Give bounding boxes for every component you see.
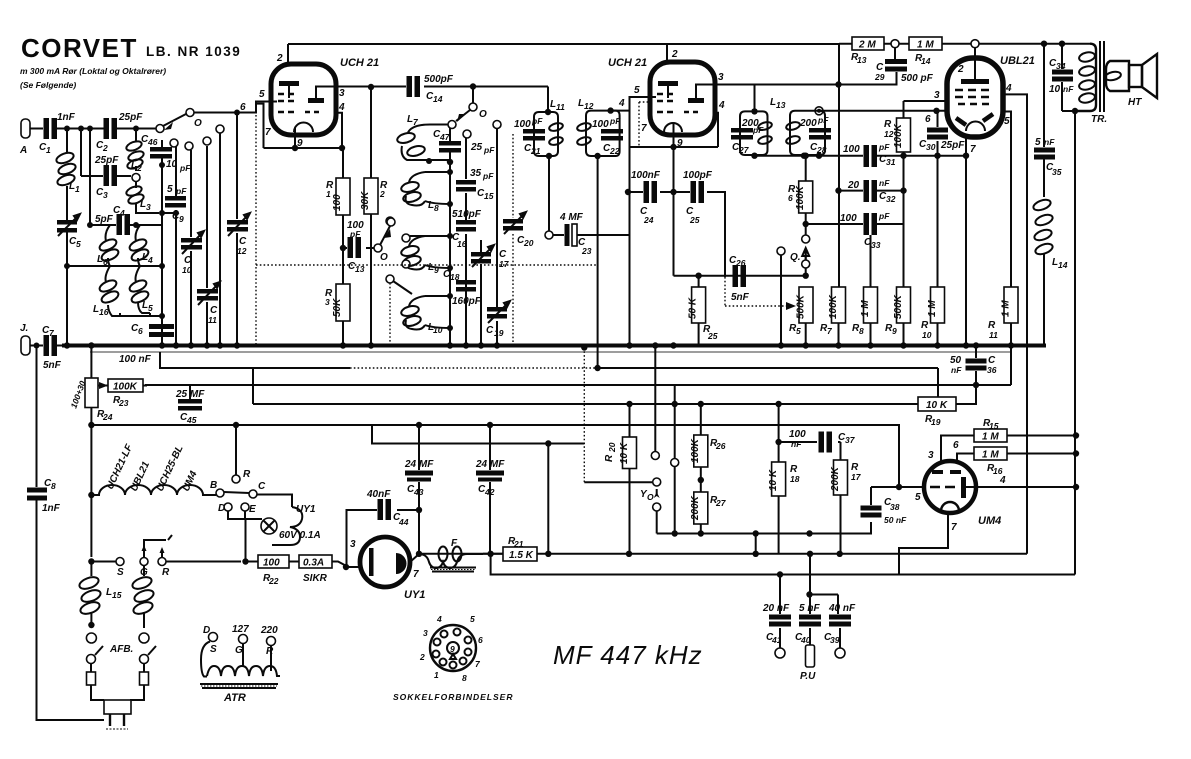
- cathode U1: [294, 123, 313, 133]
- capacitor C2: [104, 118, 110, 139]
- capacitor C38: [870, 487, 872, 534]
- svg-text:10: 10: [182, 265, 192, 275]
- wire rail y404: [253, 367, 918, 404]
- svg-text:R: R: [162, 567, 170, 578]
- svg-text:SIKR: SIKR: [303, 573, 328, 584]
- svg-text:4: 4: [999, 475, 1006, 486]
- svg-text:12: 12: [884, 129, 894, 139]
- svg-text:21: 21: [513, 539, 524, 549]
- svg-text:UM4: UM4: [978, 515, 1001, 527]
- svg-text:8: 8: [859, 326, 864, 336]
- osc switch O: [472, 87, 474, 104]
- svg-text:50 K: 50 K: [688, 297, 699, 319]
- svg-text:nF: nF: [879, 178, 890, 188]
- svg-text:7: 7: [413, 569, 419, 580]
- resistor R18: [778, 404, 780, 554]
- trimmer C20: [512, 134, 514, 346]
- wire down from C14 line: [547, 87, 549, 113]
- svg-text:8: 8: [51, 481, 56, 491]
- terminal 127 G: [239, 635, 248, 644]
- svg-text:S: S: [210, 644, 217, 655]
- svg-text:29: 29: [874, 72, 885, 82]
- pin 4 wire: [715, 113, 718, 147]
- pin row wire: [630, 146, 719, 148]
- inductor L6: [106, 225, 111, 266]
- terminal A: [21, 119, 30, 138]
- svg-text:O: O: [647, 492, 654, 502]
- svg-text:25: 25: [689, 215, 700, 225]
- svg-text:2 M: 2 M: [858, 40, 876, 51]
- svg-text:42: 42: [484, 487, 495, 497]
- pin 4 wire: [966, 486, 1076, 488]
- svg-text:R: R: [243, 469, 251, 480]
- svg-text:4: 4: [718, 100, 725, 111]
- svg-text:10 K: 10 K: [619, 442, 630, 464]
- svg-text:10: 10: [922, 330, 932, 340]
- svg-text:18: 18: [450, 272, 460, 282]
- tube UY1: [360, 537, 410, 587]
- grid dashes U3: [955, 90, 989, 104]
- svg-text:35: 35: [470, 168, 482, 179]
- chassis bus: [62, 344, 1046, 348]
- capacitor C47: [449, 128, 451, 162]
- svg-text:25pF: 25pF: [118, 112, 143, 123]
- svg-text:AFB.: AFB.: [109, 644, 133, 655]
- inductor L13a coil: [757, 121, 772, 131]
- capacitor C37: [779, 441, 841, 443]
- svg-text:2: 2: [671, 49, 678, 60]
- pin 7 wire: [256, 104, 264, 148]
- wire heater row: [91, 561, 116, 563]
- svg-text:4: 4: [1005, 83, 1012, 94]
- wire TR bottom: [1062, 110, 1075, 112]
- tank L13b C28: [815, 107, 823, 115]
- capacitor C43: [418, 425, 420, 554]
- switch YQ: [583, 348, 585, 483]
- svg-text:100K: 100K: [795, 185, 806, 210]
- svg-text:J.: J.: [20, 323, 28, 334]
- svg-text:3: 3: [423, 628, 428, 638]
- svg-text:40: 40: [800, 635, 811, 645]
- inductor L16: [106, 266, 121, 316]
- trimmer C19: [496, 129, 498, 346]
- trimmer C17: [480, 240, 482, 346]
- inductor L7: [402, 125, 430, 161]
- transformer TR primary: [1075, 44, 1096, 111]
- svg-text:3: 3: [146, 202, 151, 212]
- svg-text:nF: nF: [791, 439, 802, 449]
- resistor R2: [370, 87, 372, 346]
- wire top right rail: [979, 43, 1090, 45]
- svg-text:44: 44: [398, 517, 409, 527]
- capacitor C3: [81, 129, 103, 177]
- wire: [37, 500, 105, 720]
- svg-text:E: E: [249, 504, 256, 515]
- svg-text:500pF: 500pF: [424, 74, 454, 85]
- svg-text:pF: pF: [483, 145, 495, 155]
- wire vertical plain: [219, 129, 221, 346]
- capacitor C42: [489, 425, 491, 554]
- wire TR bottom down long: [1074, 111, 1076, 575]
- inductor L3: [136, 182, 159, 213]
- grid dashes U2: [657, 94, 673, 112]
- svg-text:3: 3: [103, 190, 108, 200]
- svg-text:27: 27: [715, 498, 727, 508]
- svg-text:6: 6: [788, 193, 793, 203]
- choke F: [410, 554, 483, 568]
- svg-text:200: 200: [799, 118, 817, 129]
- svg-text:ATR: ATR: [223, 692, 246, 704]
- grid dashes U1: [278, 94, 294, 112]
- dotted select line: [256, 264, 598, 266]
- svg-text:5: 5: [76, 239, 81, 249]
- svg-text:2: 2: [957, 64, 964, 75]
- svg-text:100K: 100K: [893, 123, 904, 148]
- svg-text:1 M: 1 M: [982, 450, 999, 461]
- pin 3 wire: [346, 566, 361, 568]
- svg-text:5 nF: 5 nF: [799, 603, 820, 614]
- svg-text:5: 5: [1035, 137, 1041, 148]
- wire rail y553.8: [537, 553, 1027, 555]
- svg-text:nF: nF: [951, 365, 962, 375]
- svg-text:43: 43: [413, 487, 424, 497]
- svg-text:13: 13: [776, 100, 786, 110]
- svg-text:10 K: 10 K: [926, 400, 948, 411]
- svg-text:5: 5: [1004, 116, 1010, 127]
- svg-text:UCH 21: UCH 21: [608, 57, 647, 69]
- svg-text:24: 24: [643, 215, 654, 225]
- switch contacts top: [170, 139, 178, 147]
- wire pin3 to R13 column: [715, 84, 839, 86]
- capacitor C7: [44, 335, 50, 356]
- svg-text:10 K: 10 K: [768, 469, 779, 491]
- wire rail y533.5: [657, 522, 871, 534]
- svg-text:5: 5: [796, 326, 801, 336]
- svg-text:100: 100: [840, 213, 857, 224]
- svg-text:(Se Følgende): (Se Følgende): [20, 80, 76, 90]
- capacitor C39: [838, 595, 840, 649]
- svg-text:25: 25: [707, 331, 718, 341]
- resistor R1: [342, 148, 344, 248]
- switch Q: [805, 224, 807, 235]
- svg-text:500 pF: 500 pF: [901, 73, 934, 84]
- svg-text:200K: 200K: [690, 495, 701, 521]
- resistor R17: [840, 442, 842, 554]
- svg-text:D: D: [218, 503, 225, 514]
- wire R12/C32 column down: [903, 156, 905, 287]
- svg-text:15: 15: [484, 191, 494, 201]
- terminal O/S: [209, 633, 218, 642]
- IFT1 tank L11 C21: [534, 112, 558, 156]
- pin 3 label: [946, 100, 948, 102]
- capacitor C41: [779, 575, 781, 649]
- capacitor C14: [343, 86, 548, 88]
- svg-text:m 300 mA Rør (Loktal og Oktal: m 300 mA Rør (Loktal og Oktalrører): [20, 66, 166, 76]
- svg-text:O: O: [479, 109, 487, 120]
- svg-text:pF: pF: [179, 163, 191, 173]
- wire: [117, 128, 159, 130]
- resistor R3: [342, 248, 344, 346]
- svg-text:10: 10: [1049, 84, 1061, 95]
- wire node line: [67, 265, 162, 267]
- ATR coil: [201, 642, 210, 677]
- svg-text:12: 12: [237, 246, 247, 256]
- capacitor C25: [674, 192, 726, 277]
- svg-text:pF: pF: [531, 116, 543, 126]
- pin 5 wire: [1003, 112, 1011, 386]
- wire down to tank: [754, 85, 756, 112]
- resistor R11: [1004, 287, 1018, 323]
- svg-text:0.3A: 0.3A: [303, 558, 324, 569]
- svg-text:D: D: [203, 625, 210, 636]
- node + central line: [420, 160, 450, 346]
- tube UM4 envelope: [924, 461, 976, 513]
- switch contact 25pF: [463, 130, 471, 138]
- inductor L2: [135, 129, 137, 172]
- svg-text:3: 3: [928, 450, 934, 461]
- svg-text:2: 2: [276, 53, 283, 64]
- svg-text:26: 26: [735, 258, 746, 268]
- svg-text:23: 23: [118, 398, 129, 408]
- capacitor C35 + inductor L14: [1043, 44, 1045, 147]
- pin 7 dotted box: [639, 102, 650, 147]
- svg-text:21: 21: [530, 146, 541, 156]
- svg-text:1: 1: [46, 145, 51, 155]
- variable capacitor C10: [190, 150, 192, 346]
- anode plate U2: [658, 81, 678, 86]
- pin row wire: [264, 147, 343, 149]
- inductor L8: [406, 172, 425, 206]
- svg-text:46: 46: [147, 137, 158, 147]
- svg-text:4: 4: [338, 102, 345, 113]
- svg-text:7: 7: [641, 123, 647, 134]
- svg-text:1 M: 1 M: [1001, 300, 1012, 317]
- svg-text:7: 7: [265, 127, 271, 138]
- svg-text:50 nF: 50 nF: [884, 515, 907, 525]
- svg-text:510pF: 510pF: [452, 209, 482, 220]
- svg-text:127: 127: [232, 624, 249, 635]
- svg-text:24: 24: [102, 412, 113, 422]
- wire tank bottoms row: [755, 155, 864, 157]
- cathode U3: [966, 122, 985, 132]
- inductor L9: [406, 236, 425, 270]
- svg-text:F: F: [451, 538, 458, 549]
- triode grid U2: [688, 98, 704, 103]
- tube U1 UCH21 envelope: [271, 64, 336, 135]
- resistor R21: [483, 553, 503, 555]
- svg-text:5pF: 5pF: [95, 214, 114, 225]
- svg-text:pF: pF: [349, 229, 361, 239]
- svg-text:5nF: 5nF: [43, 360, 62, 371]
- svg-text:3: 3: [325, 297, 330, 307]
- svg-text:4: 4: [436, 614, 442, 624]
- capacitor C5 (trimmer): [57, 220, 77, 225]
- svg-text:19: 19: [931, 417, 941, 427]
- svg-text:100: 100: [332, 194, 343, 211]
- wire L12 top to grid: [611, 97, 656, 111]
- svg-text:6: 6: [478, 635, 483, 645]
- capacitor C44: [347, 510, 420, 567]
- svg-text:100K: 100K: [690, 438, 701, 463]
- svg-text:34: 34: [1056, 61, 1066, 71]
- svg-text:3: 3: [339, 88, 345, 99]
- node: [64, 126, 70, 132]
- svg-text:O: O: [380, 252, 388, 263]
- svg-text:nF: nF: [1044, 137, 1055, 147]
- UM4 electrodes: [932, 470, 943, 474]
- UY1 heater bracket: [272, 507, 302, 545]
- svg-text:25: 25: [470, 142, 483, 153]
- pin 4 wire: [1003, 94, 1027, 553]
- inductor L13b coil: [785, 121, 800, 131]
- svg-text:1 M: 1 M: [917, 40, 934, 51]
- svg-text:19: 19: [494, 328, 504, 338]
- svg-text:C: C: [258, 481, 266, 492]
- band switch arrow: [156, 125, 164, 133]
- wire grid2 row: [819, 110, 947, 112]
- capacitor C4: [90, 129, 116, 226]
- pin 4 wire: [336, 113, 342, 148]
- svg-text:9: 9: [450, 644, 455, 654]
- capacitor C28: [809, 128, 831, 133]
- svg-text:8: 8: [462, 673, 467, 683]
- svg-text:24 MF: 24 MF: [475, 459, 505, 470]
- wire long vertical tube2 left: [629, 111, 631, 346]
- svg-text:6: 6: [138, 326, 143, 336]
- svg-text:100: 100: [514, 119, 531, 130]
- svg-text:14: 14: [1058, 260, 1068, 270]
- svg-text:1: 1: [326, 189, 331, 199]
- svg-text:1 M: 1 M: [860, 300, 871, 317]
- switch contact left: [777, 247, 785, 255]
- top rail: [288, 43, 839, 45]
- svg-text:40 nF: 40 nF: [828, 603, 856, 614]
- svg-text:22: 22: [609, 146, 620, 156]
- svg-text:SOKKELFORBINDELSER: SOKKELFORBINDELSER: [393, 692, 513, 702]
- svg-text:27: 27: [738, 145, 750, 155]
- resistor R27: [700, 480, 702, 534]
- svg-text:6: 6: [240, 102, 246, 113]
- svg-text:5: 5: [470, 614, 475, 624]
- capacitor C31: [864, 145, 870, 167]
- heater chain bumps: [91, 485, 216, 495]
- svg-text:160pF: 160pF: [452, 296, 482, 307]
- switch gang dotted: [255, 104, 257, 346]
- svg-text:MF 447 kHz: MF 447 kHz: [553, 640, 703, 670]
- svg-text:pF: pF: [482, 171, 494, 181]
- capacitor C32: [839, 190, 864, 192]
- svg-text:UCH 21: UCH 21: [340, 57, 379, 69]
- svg-text:UY1: UY1: [296, 504, 316, 515]
- svg-text:R: R: [604, 454, 615, 462]
- svg-text:3: 3: [934, 90, 940, 101]
- svg-text:12: 12: [584, 101, 594, 111]
- inductor L11 coil: [548, 122, 563, 132]
- svg-text:A: A: [19, 145, 27, 156]
- anode plate U3: [961, 79, 989, 84]
- capacitor C16: [465, 193, 467, 280]
- svg-text:1 M: 1 M: [982, 432, 999, 443]
- svg-text:O: O: [194, 118, 202, 129]
- svg-text:B: B: [210, 480, 217, 491]
- svg-text:2: 2: [419, 652, 425, 662]
- svg-text:4: 4: [119, 208, 125, 218]
- wire rail y594: [810, 594, 839, 596]
- capacitor C8: [36, 346, 38, 488]
- svg-text:6: 6: [953, 440, 959, 451]
- switch contacts: [654, 346, 656, 452]
- wire R circle: [235, 425, 237, 475]
- second heater coil: [143, 566, 145, 577]
- diode plates U3: [956, 118, 966, 125]
- svg-text:9: 9: [179, 214, 184, 224]
- svg-text:TR.: TR.: [1091, 114, 1107, 125]
- svg-text:26: 26: [715, 441, 726, 451]
- svg-text:40nF: 40nF: [366, 489, 391, 500]
- svg-text:16: 16: [99, 307, 109, 317]
- wire: [57, 128, 104, 130]
- inductor L14: [1032, 198, 1052, 213]
- fuse G3A SIKR: [289, 561, 299, 563]
- capacitor C22: [601, 129, 623, 134]
- svg-text:33: 33: [871, 240, 881, 250]
- anode plate U1: [279, 81, 299, 86]
- svg-text:1: 1: [434, 670, 439, 680]
- svg-text:3: 3: [350, 539, 356, 550]
- triode grid U1: [308, 98, 324, 103]
- svg-text:S: S: [117, 567, 124, 578]
- svg-text:31: 31: [886, 157, 896, 167]
- resistor R7: [838, 287, 840, 346]
- svg-text:100K: 100K: [113, 382, 138, 393]
- pin 7 wire: [408, 561, 412, 563]
- svg-text:32: 32: [886, 194, 896, 204]
- dotted gang line: [389, 283, 391, 345]
- inductor L5: [136, 266, 151, 313]
- svg-text:13: 13: [857, 55, 867, 65]
- pin 2 wire: [287, 44, 289, 64]
- resistor R8: [870, 235, 872, 346]
- svg-text:5nF: 5nF: [731, 292, 750, 303]
- resistor R16: [974, 447, 1007, 460]
- inductor L15: [90, 562, 92, 577]
- bus junction dots: [835, 342, 841, 348]
- wire bus lower thin: [90, 351, 1012, 353]
- svg-text:7: 7: [970, 144, 976, 155]
- wire rail y383.5: [146, 384, 1011, 386]
- svg-text:47: 47: [439, 132, 451, 142]
- osc switch contacts left: [387, 218, 395, 226]
- svg-text:3: 3: [718, 72, 724, 83]
- resistor R23: [104, 384, 150, 387]
- pin 2 wire: [974, 48, 976, 58]
- svg-text:100K: 100K: [828, 294, 839, 319]
- svg-text:C: C: [486, 325, 494, 336]
- capacitor C29: [840, 48, 897, 85]
- capacitor C9: [175, 146, 177, 213]
- svg-text:39: 39: [830, 635, 840, 645]
- svg-text:22: 22: [268, 576, 279, 586]
- capacitor C46: [161, 140, 163, 165]
- svg-text:4: 4: [618, 98, 625, 109]
- svg-text:500K: 500K: [796, 294, 807, 319]
- pilot lamp: [261, 518, 277, 534]
- svg-text:nF: nF: [1063, 84, 1074, 94]
- svg-text:20: 20: [847, 180, 860, 191]
- pin 7 wire: [899, 513, 948, 575]
- svg-text:100pF: 100pF: [683, 170, 713, 181]
- svg-text:23: 23: [581, 246, 592, 256]
